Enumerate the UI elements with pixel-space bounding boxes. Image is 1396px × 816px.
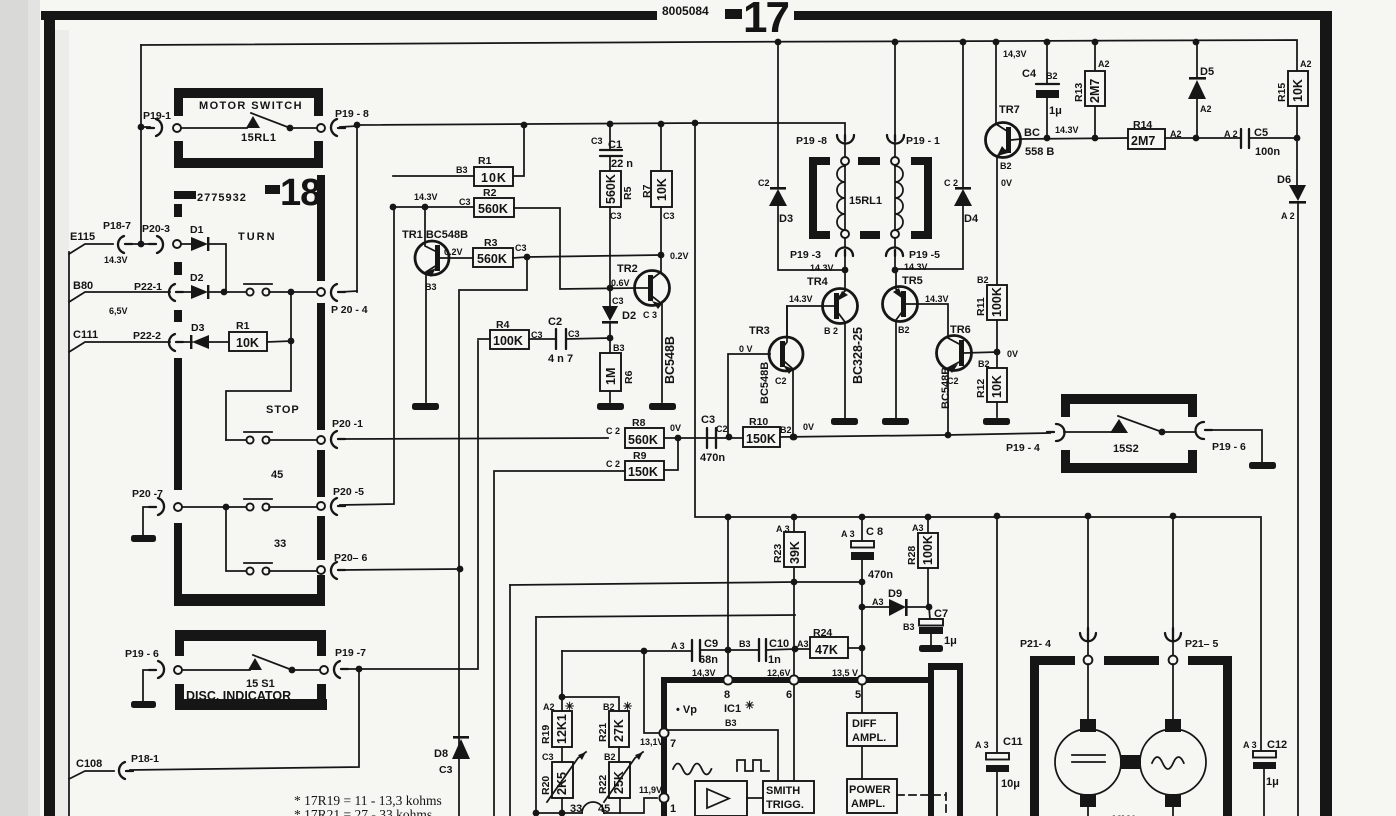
svg-text:1n: 1n xyxy=(768,654,781,666)
svg-text:7: 7 xyxy=(670,738,676,750)
svg-text:470n: 470n xyxy=(868,569,893,581)
svg-text:14,3V: 14,3V xyxy=(1003,49,1027,59)
svg-text:BC: BC xyxy=(1024,127,1040,139)
svg-text:TRIGG.: TRIGG. xyxy=(766,799,804,811)
svg-text:14.3V: 14.3V xyxy=(414,192,438,202)
svg-text:C11: C11 xyxy=(1003,736,1023,748)
svg-text:DISC. INDICATOR: DISC. INDICATOR xyxy=(186,689,291,703)
svg-text:D3: D3 xyxy=(779,213,793,225)
svg-text:33: 33 xyxy=(570,803,582,815)
svg-text:R1: R1 xyxy=(478,155,492,167)
svg-text:C 3: C 3 xyxy=(643,310,657,320)
svg-text:P19 - 6: P19 - 6 xyxy=(1212,441,1246,453)
svg-text:D4: D4 xyxy=(964,213,979,225)
svg-text:A 3: A 3 xyxy=(1243,740,1257,750)
svg-text:BC548B: BC548B xyxy=(759,362,771,404)
svg-text:C9: C9 xyxy=(704,638,718,650)
svg-text:A3: A3 xyxy=(797,639,809,649)
svg-text:C2: C2 xyxy=(947,376,959,386)
svg-text:R11: R11 xyxy=(975,297,987,316)
svg-text:P19 - 8: P19 - 8 xyxy=(335,108,369,120)
svg-text:A2: A2 xyxy=(1200,104,1212,114)
svg-text:560K: 560K xyxy=(604,174,618,204)
svg-text:R8: R8 xyxy=(632,417,646,429)
svg-text:A3: A3 xyxy=(872,597,884,607)
svg-text:R22: R22 xyxy=(597,775,609,794)
svg-text:P19 -3: P19 -3 xyxy=(790,249,821,261)
svg-text:D9: D9 xyxy=(888,588,902,600)
svg-text:10K: 10K xyxy=(990,375,1004,398)
svg-text:14.3V: 14.3V xyxy=(810,263,834,273)
svg-text:2M7: 2M7 xyxy=(1088,79,1102,103)
svg-text:13,1V: 13,1V xyxy=(640,737,664,747)
svg-text:39K: 39K xyxy=(788,541,802,564)
svg-text:C3: C3 xyxy=(515,243,527,253)
svg-text:C3: C3 xyxy=(663,211,675,221)
svg-text:* 17R21 = 27 - 33 kohms: * 17R21 = 27 - 33 kohms xyxy=(294,807,432,816)
svg-text:558 B: 558 B xyxy=(1025,146,1054,158)
svg-text:B2: B2 xyxy=(1000,161,1012,171)
svg-text:4 n 7: 4 n 7 xyxy=(548,353,573,365)
svg-text:R20: R20 xyxy=(540,776,552,795)
svg-text:A2: A2 xyxy=(1098,59,1110,69)
svg-text:B3: B3 xyxy=(903,622,915,632)
svg-text:P20-3: P20-3 xyxy=(142,223,170,235)
svg-text:45: 45 xyxy=(598,803,610,815)
svg-text:C2: C2 xyxy=(548,316,562,328)
svg-text:1μ: 1μ xyxy=(944,635,957,647)
svg-text:DIFF: DIFF xyxy=(852,718,877,730)
svg-text:TR5: TR5 xyxy=(902,275,923,287)
svg-text:C111: C111 xyxy=(73,329,98,341)
svg-text:R10: R10 xyxy=(749,416,768,428)
svg-text:P20– 6: P20– 6 xyxy=(334,552,367,564)
svg-text:33: 33 xyxy=(274,538,286,550)
svg-text:R23: R23 xyxy=(772,544,784,563)
svg-text:R6: R6 xyxy=(623,370,635,384)
svg-text:AMPL.: AMPL. xyxy=(852,732,886,744)
svg-text:2K5: 2K5 xyxy=(555,772,569,795)
svg-text:BC328-25: BC328-25 xyxy=(851,327,865,384)
svg-text:B2: B2 xyxy=(977,275,989,285)
svg-text:R21: R21 xyxy=(597,723,609,742)
svg-text:IC1: IC1 xyxy=(724,703,741,715)
svg-text:A 2: A 2 xyxy=(1281,211,1295,221)
svg-text:150K: 150K xyxy=(746,432,776,446)
svg-text:BC548B: BC548B xyxy=(663,336,677,384)
svg-text:P20 -1: P20 -1 xyxy=(332,418,363,430)
svg-text:B3: B3 xyxy=(425,282,437,292)
svg-text:C3: C3 xyxy=(612,296,624,306)
svg-text:1: 1 xyxy=(670,803,676,815)
svg-text:14.3V: 14.3V xyxy=(904,262,928,272)
svg-text:10K: 10K xyxy=(655,178,669,201)
svg-text:B 2: B 2 xyxy=(824,326,838,336)
svg-text:D1: D1 xyxy=(190,224,204,236)
svg-text:0V: 0V xyxy=(670,423,681,433)
svg-text:45: 45 xyxy=(271,469,283,481)
svg-text:A3: A3 xyxy=(912,523,924,533)
svg-text:C 2: C 2 xyxy=(944,178,958,188)
svg-text:C3: C3 xyxy=(591,136,603,146)
svg-text:14.3V: 14.3V xyxy=(925,294,949,304)
svg-text:P19 -5: P19 -5 xyxy=(909,249,940,261)
svg-text:A 3: A 3 xyxy=(975,740,989,750)
svg-text:P19 -7: P19 -7 xyxy=(335,647,366,659)
svg-text:C7: C7 xyxy=(934,608,948,620)
svg-text:8: 8 xyxy=(724,689,730,701)
svg-text:P19 - 6: P19 - 6 xyxy=(125,648,159,660)
svg-text:10K: 10K xyxy=(236,336,259,350)
svg-text:A 2: A 2 xyxy=(1224,129,1238,139)
svg-text:C108: C108 xyxy=(76,758,102,770)
svg-text:15RL1: 15RL1 xyxy=(849,195,882,207)
svg-text:10K: 10K xyxy=(481,171,507,185)
svg-text:STOP: STOP xyxy=(266,404,300,416)
svg-text:22 n: 22 n xyxy=(611,158,633,170)
svg-text:100K: 100K xyxy=(921,535,935,565)
svg-text:AMPL.: AMPL. xyxy=(851,798,885,810)
svg-text:R19: R19 xyxy=(540,725,552,744)
svg-text:R9: R9 xyxy=(633,450,647,462)
svg-text:SMITH: SMITH xyxy=(766,785,800,797)
svg-text:R24: R24 xyxy=(813,627,832,639)
svg-text:0V: 0V xyxy=(1007,349,1018,359)
svg-text:560K: 560K xyxy=(477,252,507,266)
svg-text:C1: C1 xyxy=(608,139,622,151)
svg-text:B3: B3 xyxy=(456,165,468,175)
svg-text:A2: A2 xyxy=(1300,59,1312,69)
svg-text:A 3: A 3 xyxy=(671,641,685,651)
svg-text:TR3: TR3 xyxy=(749,325,770,337)
svg-text:B3: B3 xyxy=(739,639,751,649)
svg-text:6: 6 xyxy=(786,689,792,701)
svg-text:B2: B2 xyxy=(898,325,910,335)
svg-text:TR1 BC548B: TR1 BC548B xyxy=(402,229,468,241)
svg-text:A 3: A 3 xyxy=(841,529,855,539)
svg-text:A 3: A 3 xyxy=(776,524,790,534)
svg-text:R15: R15 xyxy=(1276,83,1288,102)
svg-text:R7: R7 xyxy=(641,184,653,198)
svg-text:560K: 560K xyxy=(628,433,658,447)
svg-text:• Vp: • Vp xyxy=(676,704,697,716)
svg-text:C 2: C 2 xyxy=(606,459,620,469)
svg-text:C2: C2 xyxy=(758,178,770,188)
svg-text:100n: 100n xyxy=(1255,146,1280,158)
svg-text:R4: R4 xyxy=(496,319,510,331)
svg-text:0 V: 0 V xyxy=(739,344,753,354)
svg-text:C3: C3 xyxy=(439,764,453,776)
svg-text:0.2V: 0.2V xyxy=(670,251,689,261)
svg-text:P22-1: P22-1 xyxy=(134,281,162,293)
svg-text:C12: C12 xyxy=(1267,739,1287,751)
svg-text:C3: C3 xyxy=(459,197,471,207)
svg-text:68n: 68n xyxy=(699,654,718,666)
svg-text:D6: D6 xyxy=(1277,174,1291,186)
svg-text:R14: R14 xyxy=(1133,119,1152,131)
svg-text:47K: 47K xyxy=(815,643,838,657)
svg-text:C 2: C 2 xyxy=(606,426,620,436)
svg-text:17: 17 xyxy=(743,0,788,42)
svg-text:C2: C2 xyxy=(775,376,787,386)
svg-text:P21- 4: P21- 4 xyxy=(1020,638,1051,650)
svg-text:P19 -8: P19 -8 xyxy=(796,135,827,147)
svg-text:0V: 0V xyxy=(803,422,814,432)
svg-text:B2: B2 xyxy=(1046,71,1058,81)
svg-text:14.3V: 14.3V xyxy=(1055,125,1079,135)
svg-text:R28: R28 xyxy=(906,546,918,565)
svg-text:D2: D2 xyxy=(622,310,636,322)
svg-text:TR2: TR2 xyxy=(617,263,638,275)
svg-text:TR6: TR6 xyxy=(950,324,971,336)
svg-text:150K: 150K xyxy=(628,465,658,479)
svg-text:10μ: 10μ xyxy=(1001,778,1020,790)
svg-text:D2: D2 xyxy=(190,272,204,284)
svg-text:1M: 1M xyxy=(604,368,618,385)
svg-text:R2: R2 xyxy=(483,187,497,199)
svg-text:D5: D5 xyxy=(1200,66,1214,78)
svg-text:P18-1: P18-1 xyxy=(131,753,159,765)
svg-text:P19 - 1: P19 - 1 xyxy=(906,135,940,147)
svg-text:C3: C3 xyxy=(701,414,715,426)
svg-text:TR4: TR4 xyxy=(807,276,829,288)
svg-text:560K: 560K xyxy=(478,202,508,216)
svg-text:B3: B3 xyxy=(725,718,737,728)
svg-text:14.3V: 14.3V xyxy=(104,255,128,265)
svg-text:✳: ✳ xyxy=(745,700,754,712)
svg-text:2775932: 2775932 xyxy=(197,192,247,204)
svg-text:P21– 5: P21– 5 xyxy=(1185,638,1218,650)
svg-text:B3: B3 xyxy=(613,343,625,353)
svg-text:BC548B: BC548B xyxy=(940,367,952,409)
svg-text:15S2: 15S2 xyxy=(1113,443,1139,455)
svg-text:18: 18 xyxy=(280,172,320,214)
svg-text:100K: 100K xyxy=(493,334,523,348)
svg-text:P 20 - 4: P 20 - 4 xyxy=(331,304,368,316)
svg-text:B2: B2 xyxy=(604,752,616,762)
svg-text:POWER: POWER xyxy=(849,784,891,796)
svg-text:R12: R12 xyxy=(975,379,987,398)
svg-text:8005084: 8005084 xyxy=(662,4,709,18)
svg-text:P20 -5: P20 -5 xyxy=(333,486,364,498)
svg-text:* 17R19 = 11 - 13,3 kohms: * 17R19 = 11 - 13,3 kohms xyxy=(294,793,442,808)
svg-text:5: 5 xyxy=(855,689,861,701)
svg-text:C2: C2 xyxy=(716,424,728,434)
svg-text:C3: C3 xyxy=(568,329,580,339)
svg-text:B2: B2 xyxy=(780,425,792,435)
svg-text:C 8: C 8 xyxy=(866,526,883,538)
svg-text:TURN: TURN xyxy=(238,231,277,243)
svg-text:15RL1: 15RL1 xyxy=(241,132,277,144)
svg-text:R1: R1 xyxy=(236,320,250,332)
svg-text:TR7: TR7 xyxy=(999,104,1020,116)
svg-text:14.3V: 14.3V xyxy=(789,294,813,304)
svg-text:C3: C3 xyxy=(610,211,622,221)
svg-text:15 S1: 15 S1 xyxy=(246,678,275,690)
svg-text:P18-7: P18-7 xyxy=(103,220,131,232)
svg-text:12,6V: 12,6V xyxy=(767,668,791,678)
svg-text:470n: 470n xyxy=(700,452,725,464)
svg-text:D3: D3 xyxy=(191,322,205,334)
svg-text:B80: B80 xyxy=(73,280,93,292)
svg-text:2M7: 2M7 xyxy=(1131,134,1155,148)
svg-text:R13: R13 xyxy=(1073,83,1085,102)
svg-text:D8: D8 xyxy=(434,748,448,760)
svg-text:12K1: 12K1 xyxy=(555,714,569,744)
svg-text:0.6V: 0.6V xyxy=(611,278,630,288)
svg-text:E115: E115 xyxy=(70,231,95,243)
svg-text:MOTOR SWITCH: MOTOR SWITCH xyxy=(199,100,303,112)
svg-text:14,3V: 14,3V xyxy=(692,668,716,678)
svg-text:R3: R3 xyxy=(484,237,498,249)
svg-text:R5: R5 xyxy=(622,186,634,200)
svg-text:1μ: 1μ xyxy=(1049,105,1062,117)
svg-text:0.2V: 0.2V xyxy=(444,247,463,257)
svg-text:1μ: 1μ xyxy=(1266,776,1279,788)
svg-text:C10: C10 xyxy=(769,638,789,650)
svg-text:P22-2: P22-2 xyxy=(133,330,161,342)
svg-text:10K: 10K xyxy=(1291,79,1305,102)
svg-text:100K: 100K xyxy=(990,287,1004,317)
svg-text:11,9V: 11,9V xyxy=(639,785,662,795)
svg-text:P19 - 4: P19 - 4 xyxy=(1006,442,1040,454)
svg-text:27K: 27K xyxy=(612,719,626,742)
svg-text:C4: C4 xyxy=(1022,68,1037,80)
svg-text:6,5V: 6,5V xyxy=(109,306,128,316)
svg-text:0V: 0V xyxy=(1001,178,1012,188)
svg-text:13,5 V: 13,5 V xyxy=(832,668,858,678)
svg-text:C3: C3 xyxy=(542,752,554,762)
